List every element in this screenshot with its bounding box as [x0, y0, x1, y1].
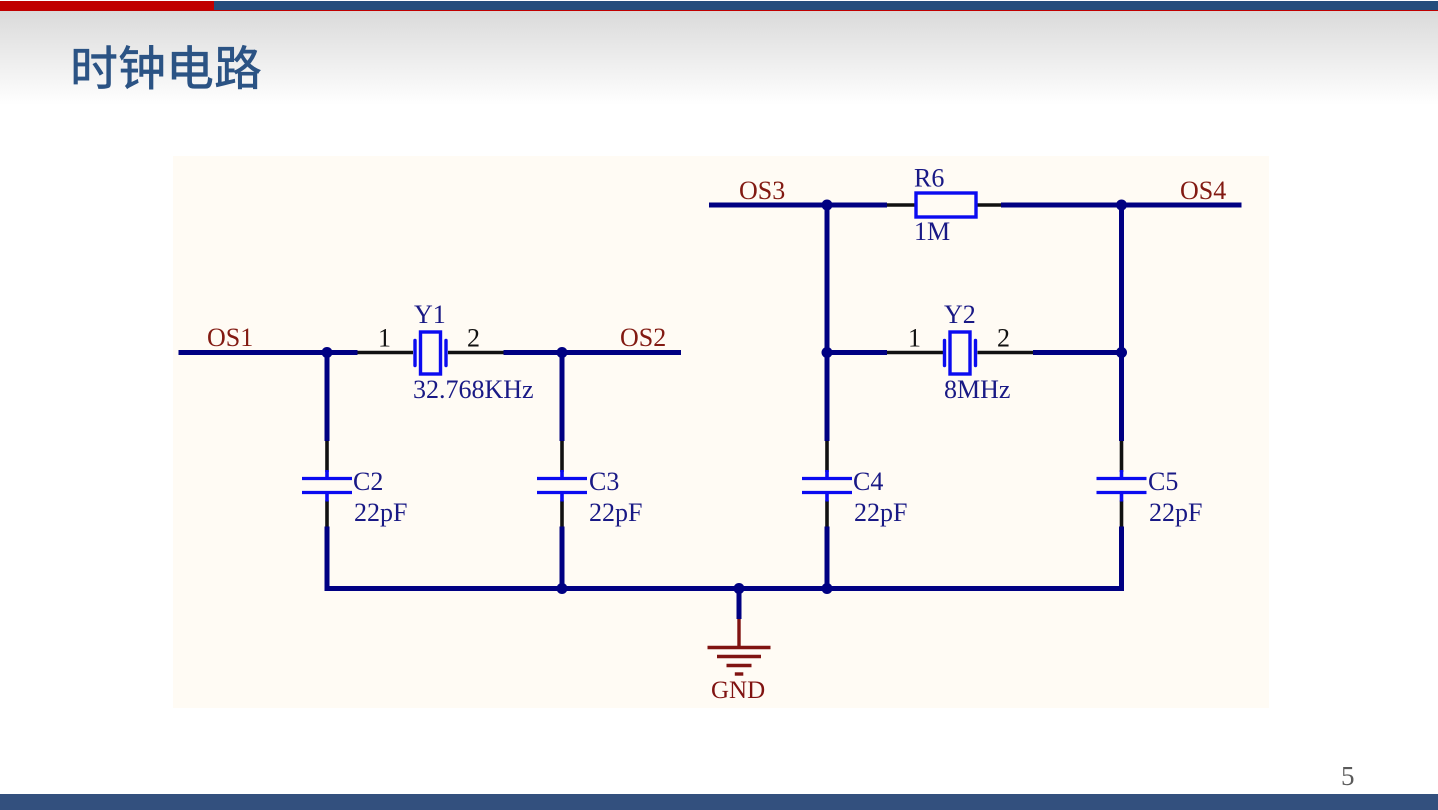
svg-text:5: 5	[1341, 761, 1355, 791]
svg-text:1: 1	[378, 324, 391, 353]
svg-text:OS3: OS3	[739, 176, 785, 205]
svg-text:R6: R6	[914, 164, 944, 193]
svg-text:C3: C3	[589, 467, 619, 496]
svg-text:OS1: OS1	[207, 323, 253, 352]
svg-text:Y2: Y2	[944, 300, 976, 329]
svg-text:OS2: OS2	[620, 323, 666, 352]
svg-text:Y1: Y1	[414, 300, 446, 329]
svg-text:GND: GND	[711, 677, 765, 704]
svg-text:C4: C4	[853, 467, 883, 496]
svg-text:2: 2	[467, 324, 480, 353]
svg-text:2: 2	[997, 324, 1010, 353]
svg-text:22pF: 22pF	[589, 498, 642, 527]
svg-text:22pF: 22pF	[1149, 498, 1202, 527]
svg-text:1M: 1M	[914, 217, 950, 246]
svg-text:22pF: 22pF	[854, 498, 907, 527]
svg-text:1: 1	[908, 324, 921, 353]
svg-text:OS4: OS4	[1180, 176, 1226, 205]
svg-text:8MHz: 8MHz	[944, 375, 1010, 404]
svg-text:C5: C5	[1148, 467, 1178, 496]
svg-text:32.768KHz: 32.768KHz	[413, 375, 534, 404]
svg-text:C2: C2	[353, 467, 383, 496]
svg-text:22pF: 22pF	[354, 498, 407, 527]
